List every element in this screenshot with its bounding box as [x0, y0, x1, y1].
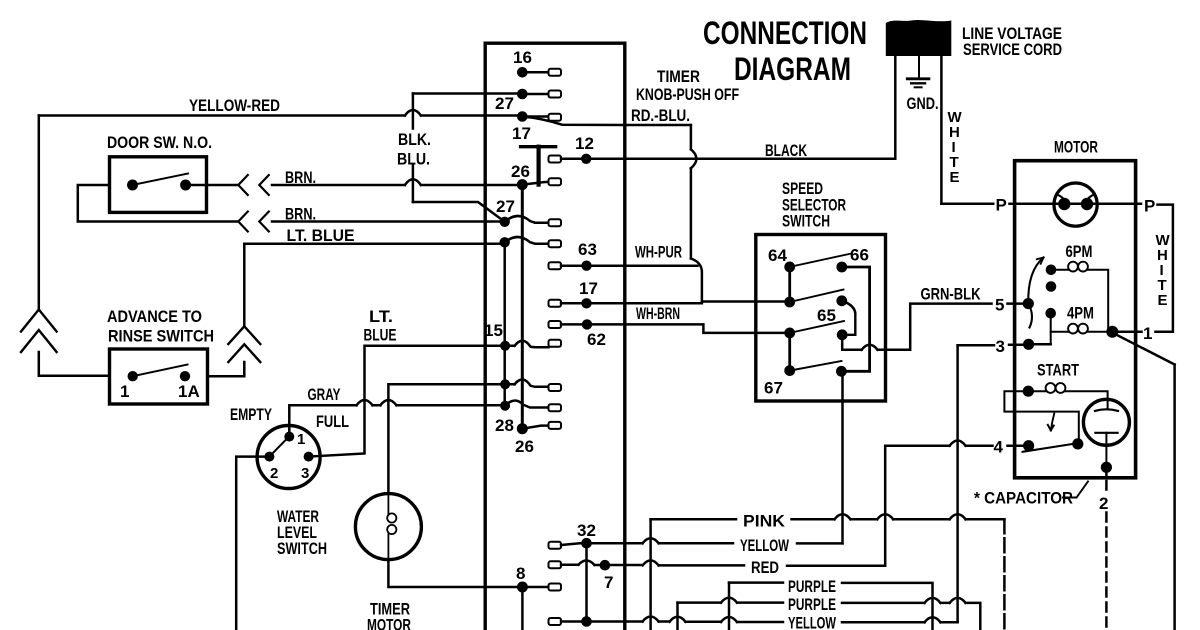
motor thermal protector circle	[1054, 183, 1097, 226]
svg-text:START: START	[1037, 361, 1079, 380]
svg-text:32: 32	[577, 521, 596, 540]
start switch moving contact dot	[1072, 438, 1083, 449]
svg-text:27: 27	[496, 197, 515, 216]
wire left main vertical	[38, 116, 41, 311]
selector left link 333-67	[788, 333, 791, 371]
svg-text:PINK: PINK	[743, 512, 786, 531]
motor terminal 3 dot	[1023, 339, 1034, 350]
terminal 8 dot	[517, 582, 528, 593]
wire PURPLE upper left vertical	[728, 583, 731, 630]
capacitor circle	[1083, 399, 1129, 445]
svg-text:ADVANCE TO: ADVANCE TO	[107, 307, 202, 326]
6PM coil	[1051, 269, 1069, 271]
svg-text:GRN-BLK: GRN-BLK	[921, 285, 982, 304]
selector dot 65	[836, 295, 847, 306]
wire WHITE vertical from cord	[940, 56, 943, 204]
svg-text:EMPTY: EMPTY	[230, 405, 272, 424]
svg-text:26: 26	[515, 437, 534, 456]
wire YELLOW bottom right part	[842, 617, 958, 622]
wire selector 67 down to YELLOW	[841, 371, 844, 543]
svg-text:RED: RED	[751, 558, 779, 577]
selector dot row3 right	[837, 329, 848, 340]
wire P right / WHITE loop to 1	[1113, 205, 1173, 332]
start switch bracket wire	[1004, 391, 1078, 440]
door switch blade	[133, 174, 189, 186]
terminal 16 dot	[517, 67, 528, 78]
wire 63 / WH-PUR	[561, 264, 698, 267]
terminal 28 dot	[500, 401, 510, 411]
wire 384 over bus to lug	[505, 379, 548, 386]
svg-text:E: E	[950, 169, 960, 186]
wire door switch left loop	[78, 185, 239, 222]
water level blade 2-1	[269, 435, 291, 457]
wire 3 vertical from motor down to yellow	[956, 345, 959, 622]
svg-text:RD.-BLU.: RD.-BLU.	[631, 106, 690, 125]
svg-text:16: 16	[513, 48, 532, 67]
start switch blade from 4	[1023, 443, 1078, 452]
terminal 26 bus dot	[517, 423, 528, 434]
lug 27 lower	[549, 219, 562, 226]
selector dot 64	[784, 262, 795, 273]
svg-text:BLUE: BLUE	[364, 326, 397, 345]
wire 8 dot to lug and down	[522, 587, 548, 630]
lug 15	[549, 340, 562, 347]
svg-text:BLU.: BLU.	[397, 150, 430, 169]
wire 27 exit left of timer box	[413, 92, 522, 95]
wire BLACK vertical from cord	[894, 56, 897, 159]
capacitor pointer line	[1063, 482, 1088, 498]
START coil	[1028, 390, 1046, 392]
water level contact 2 dot	[264, 452, 274, 462]
selector dot row2 left	[784, 297, 795, 308]
label WHITE (vertical, cord side)	[948, 109, 963, 186]
svg-text:28: 28	[495, 416, 514, 435]
wire 621 / YELLOW bottom left part	[561, 617, 783, 623]
selector dot 66	[836, 262, 847, 273]
lug 17 mid	[549, 300, 562, 307]
wire 2 dashed	[1105, 467, 1108, 489]
motor terminal 4 dot	[1023, 440, 1034, 451]
door switch left contact dot	[127, 180, 138, 191]
door switch right contact dot	[180, 180, 191, 191]
selector dot 67	[784, 365, 795, 376]
terminal LT BLUE dot	[500, 237, 510, 247]
wire motor 1 diagonal to bottom right	[1113, 333, 1175, 630]
junction dot terminal 1 coil	[1106, 326, 1118, 338]
timer inner wire x505	[503, 242, 506, 405]
svg-text:PURPLE: PURPLE	[788, 577, 836, 596]
timer inner vertical 32-621	[585, 543, 588, 621]
wire 27 dot over bus to lug	[505, 216, 549, 223]
ground wire from cord	[918, 56, 920, 77]
label LINE VOLTAGE SERVICE CORD	[962, 24, 1062, 59]
svg-text:RINSE SWITCH: RINSE SWITCH	[108, 327, 214, 346]
svg-text:1: 1	[120, 382, 129, 401]
terminal 621 dot	[581, 616, 592, 627]
svg-text:63: 63	[578, 240, 597, 259]
selector blade 67	[790, 361, 842, 371]
svg-text:GND.: GND.	[907, 94, 939, 113]
lug 16	[549, 69, 562, 76]
rinse switch contact 1A dot	[180, 371, 190, 381]
centrifugal switch middle contact dot	[1046, 281, 1057, 292]
capacitor plates	[1095, 409, 1118, 433]
svg-text:8: 8	[516, 564, 525, 583]
wire RD.-BLU. curve out of box	[522, 117, 691, 126]
timer motor body circle	[355, 494, 421, 560]
terminal 15 dot	[500, 341, 510, 351]
svg-text:DIAGRAM: DIAGRAM	[734, 51, 851, 87]
svg-text:17: 17	[512, 124, 531, 143]
svg-text:4: 4	[994, 438, 1004, 457]
wire to rinse switch	[39, 352, 110, 376]
svg-text:LT.: LT.	[369, 307, 393, 326]
wire 12 / BLACK to service cord	[561, 158, 895, 161]
svg-text:7: 7	[604, 573, 613, 592]
terminal 7 dot	[600, 560, 611, 571]
lug 27	[549, 91, 562, 98]
wire P left	[941, 203, 1054, 206]
wire PURPLE upper	[729, 583, 933, 630]
wire PINK	[651, 514, 1005, 519]
svg-text:TIMER: TIMER	[657, 67, 700, 86]
wire 32 / YELLOW left part	[561, 538, 733, 545]
lug 26	[549, 178, 562, 185]
timer internal bus wire	[521, 185, 524, 429]
wire 7 / RED left part	[561, 560, 744, 565]
wire RD-BLU vertical with bumps	[691, 125, 702, 302]
wire 28 over bus to lug	[505, 401, 548, 408]
svg-text:PURPLE: PURPLE	[788, 595, 836, 614]
terminal 62 dot	[582, 319, 592, 329]
svg-text:* CAPACITOR: * CAPACITOR	[974, 489, 1073, 508]
wire 4 into motor	[885, 440, 1023, 445]
lug 32	[549, 542, 562, 549]
svg-text:BRN.: BRN.	[285, 205, 316, 224]
timer knob push-off contact (T symbol)	[521, 147, 556, 185]
line voltage service cord plug	[886, 20, 952, 56]
wire GRN-BLK from selector to motor 5	[842, 304, 1023, 350]
wire BLU corner to terminal 27	[413, 202, 505, 222]
wire 15 over bus to lug	[505, 341, 548, 348]
svg-text:3: 3	[301, 465, 309, 482]
START contact dot	[1023, 386, 1034, 397]
wire 3 dot to 4PM coil	[1029, 343, 1051, 346]
svg-text:65: 65	[817, 306, 836, 325]
water level contact 3 dot	[304, 452, 314, 462]
svg-text:P: P	[1144, 197, 1155, 216]
wire PURPLE lower	[678, 598, 981, 630]
motor box	[1015, 161, 1136, 478]
svg-text:5: 5	[995, 296, 1004, 315]
wire GRAY from contact 1 to timer	[289, 400, 505, 437]
svg-text:17: 17	[579, 279, 598, 298]
door switch box	[110, 157, 207, 213]
wire timer motor bottom to terminal 8	[388, 560, 522, 587]
selector dot row3 left	[784, 328, 795, 339]
wire 26 dot to lug	[522, 182, 548, 185]
wire LT BLUE dot over bus to lug	[505, 237, 549, 244]
wire chevron to rinse switch right side	[208, 362, 244, 376]
svg-text:DOOR SW. N.O.: DOOR SW. N.O.	[107, 133, 212, 152]
wire LT BLUE vertical down to connector	[243, 244, 246, 326]
selector blade row2	[790, 290, 844, 303]
wire FULL from contact 3 to timer	[309, 346, 506, 457]
wire BRN upper to terminal 26	[272, 179, 522, 185]
svg-text:KNOB-PUSH OFF: KNOB-PUSH OFF	[636, 85, 739, 104]
svg-text:YELLOW: YELLOW	[740, 536, 790, 555]
rinse switch blade	[133, 365, 188, 377]
wire LT. BLUE to terminal	[244, 242, 504, 245]
svg-text:1: 1	[1143, 324, 1152, 343]
wire pin16 to lug	[522, 71, 548, 74]
svg-text:2: 2	[270, 465, 278, 482]
svg-text:1A: 1A	[178, 382, 200, 401]
lug 8	[549, 584, 562, 591]
wire BRN lower to terminal 27	[272, 220, 505, 223]
4PM coil	[1050, 313, 1052, 344]
svg-text:1: 1	[297, 431, 305, 448]
protector contact dots	[1058, 198, 1070, 210]
lug 12	[549, 156, 562, 163]
lug 7	[549, 561, 562, 568]
wire water level 2 to left vertical	[236, 457, 269, 630]
wire BLK/BLU vertical	[412, 94, 415, 203]
svg-text:26: 26	[511, 162, 530, 181]
wire door switch right to connector	[191, 184, 238, 187]
lug 63	[549, 262, 562, 269]
svg-text:SWITCH: SWITCH	[277, 539, 327, 558]
svg-text:3: 3	[996, 337, 1005, 356]
label WHITE (motor side, vertical)	[1156, 232, 1171, 309]
lug 26 lower	[549, 422, 562, 429]
svg-text:62: 62	[587, 330, 606, 349]
lug LT BLUE	[549, 240, 562, 247]
rinse switch contact 1 dot	[128, 371, 138, 381]
svg-text:BLACK: BLACK	[765, 141, 808, 160]
wire pin17 to lug	[522, 115, 548, 118]
wire pin27 to lug	[522, 93, 548, 96]
ground symbol	[907, 79, 929, 88]
speed selector switch box	[756, 235, 886, 402]
svg-text:BLK.: BLK.	[398, 130, 431, 149]
svg-text:FULL: FULL	[316, 412, 349, 431]
svg-text:SERVICE CORD: SERVICE CORD	[963, 40, 1062, 59]
wire 62 to speed selector	[561, 324, 790, 333]
capacitor stem	[1105, 433, 1107, 468]
svg-text:YELLOW-RED: YELLOW-RED	[189, 96, 280, 115]
svg-text:SWITCH: SWITCH	[782, 212, 830, 231]
6PM contact dot	[1046, 265, 1057, 276]
water level switch body circle	[257, 426, 320, 489]
svg-text:BRN.: BRN.	[285, 168, 316, 187]
selector dot 67 right	[836, 366, 847, 377]
terminal 32 dot	[581, 538, 592, 549]
timer motor coil	[387, 494, 389, 514]
svg-text:MOTOR: MOTOR	[1054, 138, 1098, 157]
selector blade 64	[790, 254, 851, 267]
terminal 63 dot	[581, 261, 591, 271]
wire through protector	[1054, 203, 1141, 206]
svg-text:2: 2	[1099, 494, 1108, 513]
advance to rinse switch box	[110, 349, 208, 404]
svg-text:P: P	[996, 196, 1007, 215]
svg-text:MOTOR: MOTOR	[367, 616, 411, 630]
wire PURPLE lower left vertical	[676, 603, 679, 630]
4PM contact dot	[1045, 308, 1056, 319]
svg-text:67: 67	[764, 379, 783, 398]
selector 65 elbow	[842, 301, 856, 335]
timer connector box	[485, 43, 625, 630]
wire 26 bus dot to lug	[522, 426, 548, 429]
lug 384	[549, 384, 562, 391]
selector wire 66 loop to 67 row	[841, 267, 869, 371]
svg-text:E: E	[1158, 292, 1168, 309]
wire 3 into motor	[958, 343, 1023, 346]
selector blade row3	[790, 321, 844, 333]
connector chevrons left pair	[21, 310, 57, 353]
terminal 17 mid dot	[581, 298, 591, 308]
wire timer motor top / 384 branch	[388, 384, 505, 493]
lug 28	[549, 404, 562, 411]
svg-text:LT. BLUE: LT. BLUE	[287, 226, 355, 245]
wire RED right part to motor 4	[787, 446, 885, 566]
lug 621	[549, 618, 562, 625]
protector horns	[1057, 195, 1094, 201]
svg-text:12: 12	[575, 134, 594, 153]
lug 17	[549, 114, 562, 121]
terminal 27 dot	[517, 89, 528, 100]
terminal 384 dot	[500, 379, 510, 389]
wire YELLOW-RED horizontal	[39, 110, 523, 116]
svg-text:66: 66	[850, 246, 869, 265]
svg-text:27: 27	[495, 94, 514, 113]
lug 62	[549, 321, 562, 328]
svg-text:WH-BRN: WH-BRN	[636, 304, 680, 323]
svg-text:GRAY: GRAY	[308, 385, 341, 404]
start switch arrow	[1048, 414, 1054, 431]
terminal 17 dot	[517, 111, 528, 122]
svg-text:WH-PUR: WH-PUR	[635, 243, 682, 262]
water level contact 1 dot	[284, 432, 294, 442]
svg-text:64: 64	[768, 246, 787, 265]
capacitor bottom dot	[1101, 462, 1112, 473]
svg-text:YELLOW: YELLOW	[788, 614, 837, 630]
wire PINK left vertical	[649, 519, 652, 630]
connector chevrons upper BRN	[238, 175, 268, 195]
svg-text:6PM: 6PM	[1066, 242, 1093, 261]
connector chevrons lower BRN	[238, 212, 268, 232]
svg-text:CONNECTION: CONNECTION	[703, 15, 867, 51]
wire 17 / WH-BRN to speed selector	[561, 302, 790, 304]
svg-text:4PM: 4PM	[1067, 304, 1094, 323]
motor terminal 5 dot	[1023, 298, 1034, 309]
terminal 27 lower dot	[500, 217, 510, 227]
terminal 26 dot	[517, 179, 528, 190]
wire PINK right vertical (dashed)	[1003, 519, 1006, 630]
connector chevrons right pair	[228, 326, 260, 362]
centrifugal switch arm	[1028, 258, 1043, 328]
selector left link 64-302	[788, 267, 791, 302]
title CONNECTION DIAGRAM	[703, 15, 867, 87]
wire YELLOW right part to selector	[797, 542, 843, 545]
terminal 12 dot	[581, 154, 591, 164]
svg-text:15: 15	[484, 321, 503, 340]
